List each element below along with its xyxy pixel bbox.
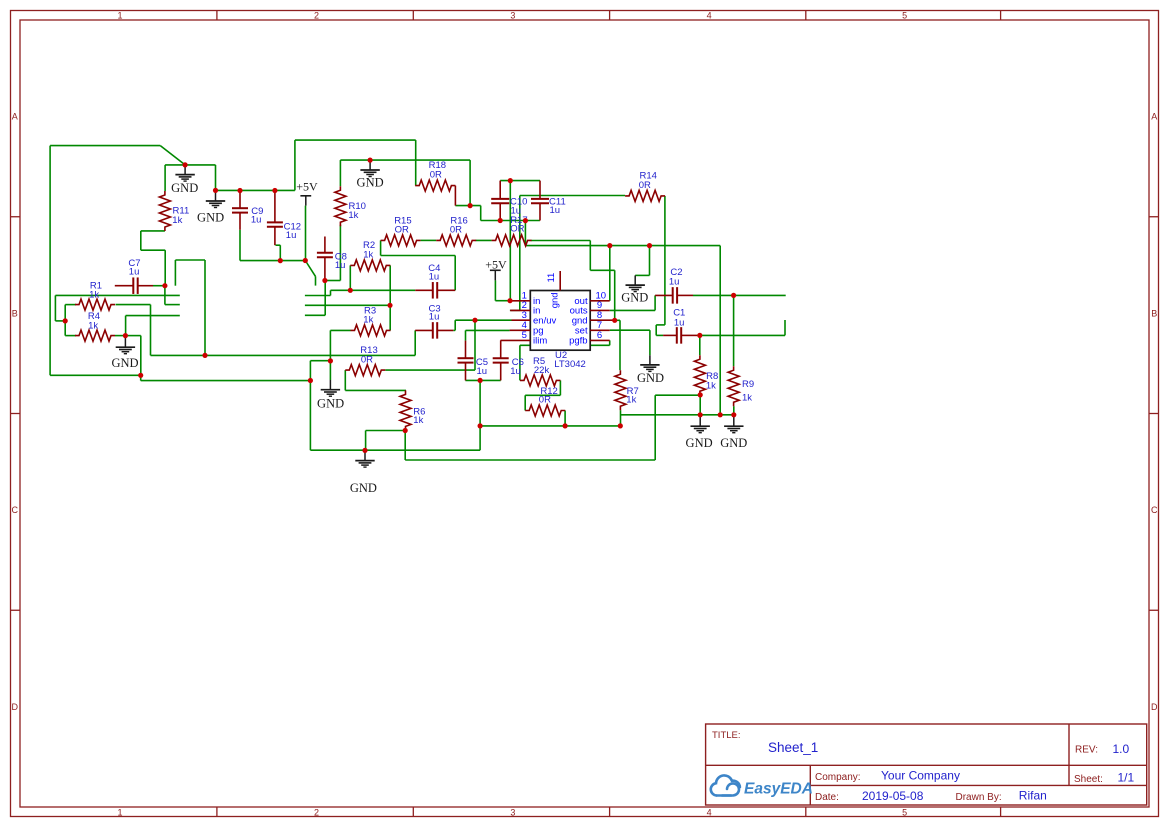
svg-text:6: 6 bbox=[597, 330, 602, 341]
junction bbox=[647, 243, 652, 248]
wire bbox=[64, 305, 66, 336]
svg-text:0R: 0R bbox=[361, 355, 373, 366]
wire bbox=[340, 159, 470, 161]
svg-text:1u: 1u bbox=[335, 260, 346, 271]
svg-text:0R: 0R bbox=[450, 224, 462, 235]
svg-text:1: 1 bbox=[117, 10, 122, 20]
svg-text:GND: GND bbox=[720, 436, 747, 450]
junction bbox=[202, 353, 207, 358]
junction bbox=[618, 423, 623, 428]
wire bbox=[495, 300, 510, 302]
U2 pin 10 bbox=[590, 300, 610, 302]
junction bbox=[272, 188, 277, 193]
svg-text:1u: 1u bbox=[511, 205, 522, 216]
wire bbox=[655, 394, 700, 396]
resistor R13 bbox=[345, 345, 385, 376]
wire bbox=[524, 395, 526, 410]
junction bbox=[138, 373, 143, 378]
svg-text:1k: 1k bbox=[742, 393, 752, 404]
wire bbox=[164, 286, 166, 305]
svg-text:1k: 1k bbox=[706, 381, 716, 392]
power +5V flag 2 bbox=[485, 257, 507, 280]
wire bbox=[339, 160, 341, 186]
wire bbox=[216, 189, 295, 191]
wire bbox=[305, 261, 315, 277]
wire bbox=[324, 281, 326, 316]
wire bbox=[454, 320, 456, 330]
ground GND10 bbox=[720, 417, 747, 451]
wire bbox=[240, 260, 305, 262]
resistor R7 bbox=[615, 370, 639, 410]
junction bbox=[698, 392, 703, 397]
junction bbox=[472, 318, 477, 323]
wire bbox=[524, 221, 526, 246]
wire bbox=[305, 304, 390, 306]
wire bbox=[480, 425, 620, 427]
wire bbox=[164, 165, 166, 191]
junction bbox=[607, 243, 612, 248]
ground GND9 bbox=[686, 417, 713, 451]
capacitor C8 bbox=[317, 237, 347, 281]
ground GND6 bbox=[317, 380, 344, 410]
svg-text:B: B bbox=[1151, 308, 1157, 318]
junction bbox=[387, 303, 392, 308]
svg-text:1u: 1u bbox=[477, 366, 488, 377]
U2 pin 7 bbox=[590, 329, 610, 331]
resistor R18 bbox=[415, 160, 455, 205]
svg-text:gnd: gnd bbox=[549, 292, 560, 308]
wire bbox=[500, 180, 540, 182]
wire bbox=[414, 330, 416, 355]
svg-text:5: 5 bbox=[902, 10, 907, 20]
capacitor C7 bbox=[115, 258, 153, 294]
wire bbox=[165, 164, 215, 166]
resistor R8 bbox=[694, 355, 718, 395]
svg-text:A: A bbox=[12, 112, 18, 122]
U2 pin 5 bbox=[501, 339, 531, 341]
svg-text:1k: 1k bbox=[172, 215, 182, 226]
wire bbox=[339, 225, 341, 281]
svg-text:GND: GND bbox=[357, 176, 384, 190]
U2 pin 4 bbox=[510, 329, 531, 331]
resistor R14 bbox=[625, 171, 665, 202]
svg-text:GND: GND bbox=[111, 356, 138, 370]
wire bbox=[65, 304, 76, 306]
junction bbox=[362, 448, 367, 453]
svg-text:ilim: ilim bbox=[533, 336, 547, 347]
junction bbox=[697, 333, 702, 338]
svg-text:1u: 1u bbox=[251, 214, 262, 225]
resistor R5 bbox=[520, 356, 560, 386]
svg-text:D: D bbox=[12, 702, 19, 712]
wire bbox=[125, 316, 127, 336]
svg-text:Date:: Date: bbox=[815, 792, 839, 803]
capacitor C1 bbox=[663, 308, 697, 344]
wire bbox=[305, 206, 307, 261]
resistor R4 bbox=[75, 311, 115, 341]
wire bbox=[344, 370, 346, 390]
wire bbox=[655, 325, 657, 336]
wire bbox=[476, 239, 492, 241]
wire bbox=[126, 315, 180, 317]
wire bbox=[520, 195, 625, 197]
wire bbox=[150, 305, 152, 356]
wire bbox=[635, 274, 649, 276]
wire bbox=[294, 140, 296, 190]
resistor R15 bbox=[381, 216, 421, 246]
junction bbox=[368, 158, 373, 163]
wire bbox=[49, 146, 51, 376]
wire bbox=[116, 304, 151, 306]
wire bbox=[175, 259, 205, 261]
resistor R12 bbox=[525, 386, 565, 416]
svg-text:TITLE:: TITLE: bbox=[712, 730, 741, 741]
junction bbox=[308, 378, 313, 383]
wire bbox=[295, 139, 416, 141]
junction bbox=[348, 288, 353, 293]
junction bbox=[403, 428, 408, 433]
wire bbox=[465, 330, 467, 340]
svg-text:1/1: 1/1 bbox=[1118, 770, 1135, 784]
wire bbox=[615, 319, 620, 321]
resistor R16 bbox=[436, 216, 476, 246]
wire bbox=[366, 430, 406, 432]
ground GND5 bbox=[621, 275, 648, 304]
svg-text:1k: 1k bbox=[626, 395, 636, 406]
resistor R11 bbox=[159, 191, 189, 231]
junction bbox=[63, 318, 68, 323]
wire bbox=[50, 145, 160, 147]
svg-text:OR: OR bbox=[510, 224, 524, 235]
svg-text:pgfb: pgfb bbox=[569, 336, 588, 347]
junction bbox=[507, 298, 512, 303]
wire bbox=[276, 244, 281, 246]
wire bbox=[469, 160, 471, 206]
svg-text:2019-05-08: 2019-05-08 bbox=[862, 789, 924, 803]
wire bbox=[590, 269, 614, 271]
U2 pin 6 bbox=[590, 339, 610, 341]
wire bbox=[54, 295, 56, 321]
svg-text:Sheet:: Sheet: bbox=[1074, 774, 1103, 785]
svg-text:1u: 1u bbox=[510, 366, 521, 377]
wire bbox=[65, 335, 76, 337]
resistor R10 bbox=[335, 186, 366, 226]
wire bbox=[305, 295, 331, 297]
wire bbox=[664, 196, 666, 325]
wire bbox=[719, 246, 721, 415]
ground GND2 bbox=[197, 191, 225, 224]
junction bbox=[523, 218, 528, 223]
capacitor C10 bbox=[491, 181, 527, 221]
U2 pin 9 bbox=[590, 309, 610, 311]
ground GND1 bbox=[171, 165, 198, 195]
junction bbox=[478, 378, 483, 383]
wire bbox=[165, 304, 180, 306]
junction bbox=[698, 412, 703, 417]
svg-text:D: D bbox=[1151, 702, 1158, 712]
junction bbox=[328, 358, 333, 363]
svg-text:4: 4 bbox=[707, 10, 712, 20]
wire bbox=[620, 410, 622, 426]
wire bbox=[141, 249, 165, 251]
wire pin2 overlap bbox=[510, 309, 520, 311]
svg-text:22k: 22k bbox=[534, 365, 550, 376]
wire bbox=[733, 295, 735, 366]
wire bbox=[480, 206, 482, 221]
junction bbox=[731, 412, 736, 417]
svg-text:1u: 1u bbox=[129, 267, 140, 278]
wire bbox=[160, 146, 185, 165]
svg-text:+5V: +5V bbox=[296, 179, 318, 193]
svg-text:+5V: +5V bbox=[485, 257, 507, 271]
svg-text:GND: GND bbox=[317, 396, 344, 410]
junction bbox=[478, 423, 483, 428]
wire bbox=[325, 280, 341, 282]
wire bbox=[559, 380, 561, 395]
svg-text:Company:: Company: bbox=[815, 772, 861, 783]
wire bbox=[330, 329, 350, 331]
wire bbox=[609, 340, 611, 345]
capacitor C6 bbox=[493, 340, 524, 380]
junction bbox=[731, 293, 736, 298]
wire bbox=[385, 369, 475, 371]
wire bbox=[610, 329, 650, 331]
svg-text:GND: GND bbox=[637, 371, 664, 385]
svg-text:0R: 0R bbox=[639, 180, 651, 191]
capacitor C9 bbox=[232, 191, 263, 230]
junction bbox=[498, 218, 503, 223]
power +5V flag 1 bbox=[296, 179, 318, 205]
wire bbox=[699, 395, 701, 415]
wire bbox=[381, 255, 456, 257]
svg-text:1k: 1k bbox=[413, 415, 423, 426]
svg-text:Your Company: Your Company bbox=[881, 769, 960, 783]
wire bbox=[656, 324, 665, 326]
svg-text:0R: 0R bbox=[539, 395, 551, 406]
svg-text:LT3042: LT3042 bbox=[554, 359, 586, 370]
wire bbox=[349, 265, 351, 290]
svg-text:1.0: 1.0 bbox=[1113, 742, 1130, 756]
wire bbox=[55, 294, 179, 296]
svg-text:Sheet_1: Sheet_1 bbox=[768, 740, 818, 755]
svg-text:1u: 1u bbox=[429, 311, 440, 322]
wire bbox=[305, 314, 325, 316]
wire bbox=[656, 334, 663, 336]
wire bbox=[204, 260, 206, 355]
wire bbox=[654, 395, 656, 460]
svg-text:Drawn By:: Drawn By: bbox=[956, 792, 1002, 803]
junction bbox=[278, 258, 283, 263]
wire bbox=[174, 260, 176, 286]
svg-text:1k: 1k bbox=[348, 210, 358, 221]
wire bbox=[454, 256, 456, 291]
wire bbox=[310, 449, 480, 451]
wire bbox=[389, 305, 391, 330]
U2 pin 1 bbox=[510, 300, 530, 302]
capacitor C12 bbox=[267, 191, 301, 246]
svg-text:B: B bbox=[12, 308, 18, 318]
svg-text:GND: GND bbox=[621, 291, 648, 305]
resistor R6 bbox=[400, 390, 425, 430]
wire bbox=[215, 165, 217, 191]
resistor R1 bbox=[75, 281, 115, 310]
junction bbox=[563, 423, 568, 428]
junction bbox=[718, 412, 723, 417]
U2 pin 2 bbox=[510, 309, 530, 311]
wire bbox=[279, 245, 281, 260]
wire bbox=[697, 334, 785, 336]
wire bbox=[309, 361, 311, 451]
wire bbox=[649, 330, 651, 355]
op-amp U2 LT3042 regulator bbox=[501, 271, 615, 370]
ground GND4 bbox=[357, 160, 384, 189]
wire bbox=[140, 231, 142, 250]
U2 pin 11 bbox=[559, 271, 561, 291]
capacitor C4 bbox=[415, 263, 455, 299]
svg-text:GND: GND bbox=[686, 436, 713, 450]
wire bbox=[589, 241, 591, 271]
wire bbox=[784, 320, 786, 335]
wire bbox=[345, 389, 406, 391]
wire bbox=[153, 285, 165, 287]
capacitor C11 bbox=[531, 181, 566, 221]
wire bbox=[455, 319, 511, 321]
resistor R9 bbox=[728, 366, 754, 406]
wire bbox=[699, 335, 701, 355]
wire bbox=[481, 220, 540, 222]
wire bbox=[465, 379, 500, 381]
junction bbox=[508, 178, 513, 183]
wire bbox=[125, 335, 140, 337]
svg-text:5: 5 bbox=[522, 330, 527, 341]
svg-text:GND: GND bbox=[197, 211, 224, 225]
wire bbox=[55, 320, 65, 322]
wire bbox=[609, 246, 611, 301]
wire bbox=[519, 345, 521, 380]
svg-text:A: A bbox=[1151, 112, 1157, 122]
wire bbox=[525, 394, 560, 396]
wire bbox=[331, 289, 416, 291]
wire bbox=[141, 230, 165, 232]
wire bbox=[693, 294, 786, 296]
wire bbox=[564, 411, 566, 426]
svg-text:1u: 1u bbox=[669, 277, 680, 288]
wire bbox=[404, 431, 406, 461]
wire bbox=[520, 344, 610, 346]
wire bbox=[733, 406, 735, 415]
wire bbox=[649, 246, 651, 276]
junction bbox=[213, 188, 218, 193]
wire bbox=[141, 380, 311, 382]
resistor R3 bbox=[351, 306, 391, 336]
junction bbox=[303, 258, 308, 263]
wire bbox=[619, 320, 621, 370]
resistor R2 bbox=[350, 240, 390, 271]
svg-text:REV:: REV: bbox=[1075, 745, 1098, 756]
U2 pin 3 bbox=[512, 319, 531, 321]
wire bbox=[455, 205, 480, 207]
wire bbox=[140, 336, 142, 376]
junction bbox=[162, 283, 167, 288]
wire bbox=[365, 431, 367, 451]
wire bbox=[474, 320, 476, 370]
svg-text:EasyEDA: EasyEDA bbox=[744, 781, 813, 798]
wire bbox=[315, 276, 317, 285]
svg-text:Rifan: Rifan bbox=[1019, 788, 1047, 802]
wire bbox=[330, 290, 332, 295]
ground GND7 bbox=[350, 451, 377, 495]
svg-text:5: 5 bbox=[902, 807, 907, 817]
junction bbox=[612, 318, 617, 323]
wire bbox=[519, 196, 521, 311]
svg-text:1k: 1k bbox=[89, 290, 99, 301]
junction bbox=[322, 278, 327, 283]
svg-text:C: C bbox=[1151, 505, 1158, 515]
wire bbox=[115, 335, 125, 337]
svg-text:1u: 1u bbox=[674, 317, 685, 328]
wire bbox=[151, 354, 416, 356]
wire bbox=[421, 239, 437, 241]
wire bbox=[310, 360, 330, 362]
svg-text:2: 2 bbox=[314, 10, 319, 20]
wire bbox=[329, 330, 331, 380]
wire bbox=[405, 459, 655, 461]
ground GND3 bbox=[111, 338, 138, 371]
wire bbox=[389, 265, 391, 305]
wire bbox=[654, 295, 656, 310]
wire bbox=[479, 380, 481, 450]
wire bbox=[494, 280, 496, 300]
svg-text:R9: R9 bbox=[742, 379, 754, 390]
U2 pin 8 bbox=[590, 319, 615, 321]
svg-text:3: 3 bbox=[510, 10, 515, 20]
svg-text:1u: 1u bbox=[286, 230, 297, 241]
wire bbox=[415, 140, 417, 186]
junction bbox=[237, 188, 242, 193]
wire bbox=[509, 181, 511, 301]
svg-text:1: 1 bbox=[117, 807, 122, 817]
wire bbox=[453, 329, 455, 331]
capacitor C3 bbox=[415, 303, 453, 338]
resistor R17 bbox=[492, 215, 532, 246]
ground GND8 bbox=[637, 355, 664, 385]
junction bbox=[183, 162, 188, 167]
svg-text:1k: 1k bbox=[88, 320, 98, 331]
wire bbox=[614, 270, 616, 320]
wire bbox=[531, 240, 591, 242]
wire bbox=[380, 240, 382, 255]
junction bbox=[123, 333, 128, 338]
wire bbox=[621, 414, 734, 416]
junction bbox=[468, 203, 473, 208]
capacitor C5 bbox=[458, 341, 489, 381]
svg-text:2: 2 bbox=[314, 807, 319, 817]
wire bbox=[525, 245, 720, 247]
wire bbox=[50, 374, 141, 376]
capacitor C2 bbox=[655, 267, 693, 304]
wire bbox=[610, 309, 655, 311]
svg-text:1u: 1u bbox=[550, 205, 561, 216]
wire bbox=[239, 230, 241, 261]
svg-text:1k: 1k bbox=[363, 315, 373, 326]
svg-text:4: 4 bbox=[707, 807, 712, 817]
svg-text:11: 11 bbox=[546, 273, 557, 283]
wire bbox=[466, 329, 510, 331]
svg-text:3: 3 bbox=[510, 807, 515, 817]
svg-text:OR: OR bbox=[395, 224, 409, 235]
svg-text:1k: 1k bbox=[363, 249, 373, 260]
svg-text:1u: 1u bbox=[429, 272, 440, 283]
